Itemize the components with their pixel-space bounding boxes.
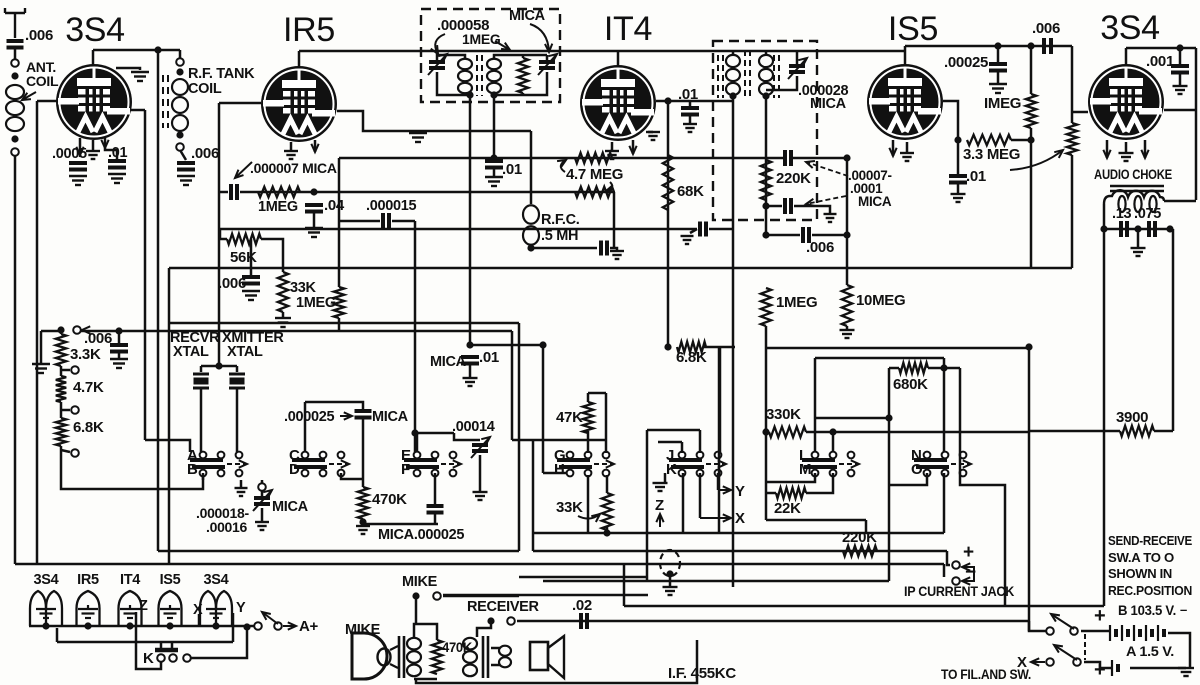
- wire x220 seg: [219, 230, 222, 239]
- switch C D: [292, 452, 327, 477]
- node sock3: [126, 622, 133, 629]
- vacuum tube V1 3S4: [56, 64, 132, 140]
- svg-text:.01: .01: [966, 168, 986, 185]
- wire y323 bus: [169, 322, 519, 325]
- arrow tube5 fil R: [1141, 150, 1148, 158]
- wire x766 lower: [765, 206, 768, 235]
- terminal div tap2: [71, 406, 79, 414]
- svg-text:1MEG: 1MEG: [776, 294, 817, 311]
- wire tube5 fil arrows R: [1144, 140, 1147, 158]
- battery B 103.5V: [1110, 625, 1164, 641]
- node phone jack tip: [666, 570, 673, 577]
- svg-text:MICA: MICA: [372, 409, 409, 425]
- vacuum tube V3 1T4: [580, 65, 656, 141]
- svg-text:470K: 470K: [372, 491, 407, 508]
- wire T1 left top: [436, 51, 439, 60]
- wire .00025 down: [997, 71, 1000, 84]
- wire JK jog: [658, 441, 682, 444]
- wire x1072 vertical: [1071, 46, 1074, 123]
- wire tube4 plate right: [943, 101, 958, 140]
- wire x624 seg: [623, 564, 626, 606]
- inductor T2 primary: [726, 55, 740, 95]
- svg-text:Z: Z: [139, 598, 148, 614]
- ground .00025: [989, 84, 1007, 93]
- wire K stub b: [171, 642, 174, 648]
- wire cap .0001 row: [766, 205, 782, 208]
- resistor 1MEG af: [1026, 94, 1036, 128]
- svg-text:M: M: [799, 461, 811, 478]
- wire tube2 fil arrow: [314, 140, 317, 152]
- wire tube1 filament left: [79, 138, 82, 157]
- arrow 33K: [578, 514, 600, 519]
- node .001 top: [1176, 44, 1183, 51]
- wire mike xfrm top: [414, 624, 437, 640]
- speaker symbol: [530, 642, 548, 670]
- svg-text:4.7 MEG: 4.7 MEG: [566, 166, 623, 183]
- node y432 x833: [829, 428, 836, 435]
- wire rfc cap gnd: [610, 248, 617, 251]
- svg-text:1MEG: 1MEG: [296, 295, 336, 311]
- transformer T1 dashed box: [421, 9, 560, 102]
- resistor 68K: [663, 155, 673, 210]
- switch C D arrow: [329, 463, 349, 465]
- wire tube2 plate gnd stub: [417, 131, 420, 134]
- wire X stub: [198, 614, 201, 626]
- inductor R.F. tank coil: [172, 79, 188, 131]
- wire tube2 grid left: [219, 102, 261, 105]
- svg-text:.00014: .00014: [452, 419, 495, 435]
- node T2 pri bottom: [729, 92, 736, 99]
- ground divider: [32, 364, 50, 373]
- svg-text:.00016: .00016: [206, 519, 248, 535]
- wire .00025 stem: [997, 46, 1000, 62]
- terminal trim curl: [258, 483, 266, 491]
- arrow mica 7: [235, 162, 252, 178]
- wire x1031 lower: [1030, 128, 1033, 268]
- wire tube1 center pin: [92, 140, 95, 150]
- wire batt B right: [1168, 633, 1190, 668]
- wire .01 y229 gnd: [690, 229, 697, 233]
- wire y192 bus: [240, 191, 614, 194]
- wire y606 bus: [624, 605, 1104, 608]
- wire 33K top: [606, 475, 609, 493]
- capacitor .02: [581, 613, 587, 629]
- node divider top: [57, 326, 64, 333]
- wire y551 box bottom: [158, 550, 519, 553]
- wire .000015 left: [338, 220, 380, 223]
- svg-text:.0005: .0005: [52, 146, 87, 162]
- svg-text:220K: 220K: [842, 529, 877, 546]
- capacitor .0005: [69, 163, 87, 170]
- wire 56K right: [261, 239, 283, 272]
- wire .01 tube3 stem: [689, 101, 692, 106]
- ground rfc cap: [610, 251, 624, 259]
- terminal RF tank top: [176, 58, 184, 66]
- resistor 3.3K: [56, 334, 66, 366]
- wire JK right down X: [699, 473, 702, 518]
- resistor 47K: [583, 402, 593, 433]
- resistor 6.8K: [56, 418, 66, 446]
- wire y268 bus: [169, 267, 1072, 270]
- capacitor .000015: [383, 213, 389, 229]
- capacitor .04: [305, 205, 323, 212]
- jack phone dashed oval: [660, 550, 680, 576]
- svg-text:33K: 33K: [556, 499, 583, 516]
- wire x958 down: [957, 140, 960, 174]
- svg-text:220K: 220K: [776, 170, 811, 187]
- wire batt B left: [1081, 630, 1110, 633]
- wire E top bus: [415, 432, 454, 435]
- svg-text:A 1.5 V.: A 1.5 V.: [1126, 644, 1174, 659]
- wire xtal left down: [200, 388, 203, 452]
- wire y158 bus: [339, 157, 786, 160]
- terminal sw A left: [1046, 658, 1054, 666]
- wire tube3 top lead: [617, 51, 620, 66]
- svg-text:.006: .006: [1032, 20, 1060, 37]
- svg-text:B 103.5 V.: B 103.5 V.: [1118, 603, 1176, 618]
- ground 470K: [356, 526, 370, 534]
- wire x1072 lower: [1071, 155, 1074, 268]
- wire y533 bus: [533, 532, 944, 535]
- arrow to X batt: [1031, 661, 1045, 663]
- wire F right down: [434, 473, 437, 504]
- wire 3900 right: [1154, 430, 1173, 433]
- svg-text:3S4: 3S4: [34, 572, 59, 588]
- svg-text:.04: .04: [324, 197, 345, 214]
- wire receiver stem: [477, 621, 491, 637]
- wire y345 seg: [470, 344, 543, 347]
- capacitor mica2: [427, 506, 444, 513]
- node RF tank bottom: [176, 131, 183, 138]
- svg-text:IT4: IT4: [120, 572, 140, 588]
- wire tube5 plate right: [1164, 109, 1196, 112]
- resistor 22K: [776, 488, 806, 498]
- wire tube4 fil arrow: [892, 140, 895, 156]
- terminal jack minus: [952, 577, 960, 585]
- arrow tube5 fil L: [1103, 150, 1110, 158]
- svg-text:XTAL: XTAL: [227, 344, 263, 360]
- switch J K open contacts: [715, 452, 722, 459]
- wire div gnd jog: [41, 330, 61, 333]
- node 3.3meg left: [954, 136, 961, 143]
- node antenna coil bottom: [11, 135, 18, 142]
- wire rf tank to cap .006: [180, 150, 186, 160]
- wire mike xfrm bottom: [414, 678, 437, 681]
- svg-text:IS5: IS5: [160, 572, 181, 588]
- capacitor .001: [1171, 66, 1189, 73]
- switch C D open contacts: [338, 452, 345, 459]
- wire tube1 filament right: [105, 138, 117, 159]
- ground .000018: [255, 522, 269, 530]
- resistor 1MEG grid: [258, 187, 300, 197]
- ground tube1 center: [86, 151, 100, 159]
- wire x169 seg: [168, 268, 171, 564]
- ground tube5 center: [1119, 153, 1134, 161]
- ground tube3 center: [605, 151, 619, 159]
- wire xfrm bottom return: [416, 640, 697, 683]
- wire JK right down Y: [717, 473, 720, 490]
- capacitor .006 rf tank: [177, 163, 195, 170]
- resistor 3.3MEG: [967, 135, 1011, 145]
- capacitor .000007: [231, 184, 237, 200]
- socket filament IT4: [119, 591, 142, 626]
- wire T2 trimmer bottom: [766, 76, 797, 90]
- wire .000018 gnd link: [240, 480, 243, 488]
- ground tube4 center: [900, 153, 914, 161]
- ground Z: [653, 483, 668, 491]
- ground .01 y229: [681, 236, 694, 244]
- wire mica2 down: [434, 513, 437, 524]
- wire y418 seg: [815, 417, 889, 420]
- svg-text:MICA.000025: MICA.000025: [378, 527, 464, 543]
- wire y520 bus: [766, 519, 866, 522]
- node T2 sec bottom: [762, 92, 769, 99]
- wire divider bottom: [61, 446, 203, 489]
- switch K bar: [155, 648, 178, 653]
- inductor mike primary: [407, 638, 421, 676]
- wire y432 bus: [806, 431, 1029, 434]
- resistor 33K gh: [602, 493, 612, 530]
- ground 10MEG: [840, 330, 855, 338]
- wire y330 bus: [78, 330, 512, 333]
- wire 330K left: [765, 428, 768, 436]
- svg-text:3900: 3900: [1116, 409, 1148, 426]
- wire L bottom: [766, 473, 815, 482]
- ground .001: [1173, 86, 1188, 94]
- wire x766 vertical: [765, 96, 768, 206]
- svg-text:REC.POSITION: REC.POSITION: [1108, 583, 1192, 598]
- svg-text:MICA: MICA: [430, 354, 467, 370]
- inductor T1 secondary: [487, 59, 501, 94]
- svg-text:Z: Z: [655, 497, 664, 514]
- wire y564 drop: [943, 564, 946, 577]
- wire fil bus 2 right stub: [232, 613, 235, 642]
- inductor T1 primary: [458, 59, 472, 94]
- node y345 left: [466, 341, 473, 348]
- ground caps mid: [1131, 248, 1146, 256]
- wire 47K top: [588, 392, 606, 395]
- svg-text:3S4: 3S4: [204, 572, 229, 588]
- svg-text:.00025: .00025: [944, 54, 988, 71]
- node xtal tee: [215, 362, 222, 369]
- terminal antenna coil bottom: [11, 148, 19, 156]
- trimmer capacitor T1 right: [539, 62, 555, 68]
- wire x960 vertical: [960, 368, 1005, 606]
- node y345 right: [539, 341, 546, 348]
- svg-text:F: F: [401, 461, 410, 478]
- wire antenna cap to coil: [14, 48, 17, 60]
- wire .04 down: [313, 212, 316, 228]
- node x766 y235: [762, 231, 769, 238]
- core T2 dashed right: [774, 55, 779, 98]
- wire .01 tube3 down: [689, 115, 692, 124]
- wire C stem: [304, 402, 307, 452]
- wire 680K left: [889, 367, 899, 370]
- wire JK left bottom: [664, 473, 667, 483]
- svg-text:COIL: COIL: [26, 73, 59, 89]
- wire out top: [491, 647, 500, 650]
- bracket ip jack: [962, 567, 974, 581]
- capacitor .006 af bars: [1044, 38, 1051, 54]
- wire x1104 vertical: [1103, 229, 1106, 606]
- wire .01 T1 down: [493, 168, 496, 177]
- capacitor .01 tube3: [681, 108, 699, 115]
- capacitor rfc bypass: [601, 241, 607, 256]
- wire B left down: [202, 473, 205, 480]
- wire grid cap left: [219, 191, 228, 194]
- wire x363 top: [305, 402, 363, 411]
- wire 10MEG gnd stem: [846, 326, 849, 330]
- inductor audio choke: [1104, 190, 1164, 204]
- wire x415 vertical: [414, 221, 417, 455]
- arrow 4.7meg b: [606, 182, 612, 191]
- node x494 y158: [490, 154, 497, 161]
- capacitor .006 56K: [242, 277, 260, 284]
- resistor volume pot: [1067, 123, 1077, 155]
- svg-text:.13: .13: [1112, 206, 1131, 222]
- transformer mike core: [399, 636, 404, 678]
- arrow to X: [700, 517, 731, 519]
- wire caps mid gnd: [1137, 229, 1140, 248]
- svg-text:1MEG: 1MEG: [258, 199, 298, 215]
- capacitor .00007: [785, 150, 791, 166]
- svg-text:SEND-RECEIVE: SEND-RECEIVE: [1108, 533, 1193, 548]
- wire T1 right trim stem: [546, 55, 549, 60]
- inductor speaker vc: [499, 646, 511, 668]
- ground tube2 center: [284, 151, 298, 159]
- svg-text:.075: .075: [1134, 206, 1161, 222]
- wire antenna top bus: [93, 49, 180, 52]
- switch A B arrow: [227, 463, 247, 465]
- terminal sw B left: [1046, 627, 1054, 635]
- svg-text:330K: 330K: [766, 406, 801, 423]
- svg-text:.5 MH: .5 MH: [541, 228, 578, 244]
- capacitor .006 div: [110, 345, 128, 352]
- switch L M arrow: [839, 463, 859, 465]
- wire div tap1: [61, 369, 70, 372]
- socket filament IS5: [159, 591, 182, 626]
- arrow tube4 fil: [889, 148, 896, 156]
- wire N right stem: [943, 358, 946, 452]
- vacuum tube V5 3S4: [1088, 64, 1164, 140]
- wire div tap2: [61, 409, 70, 412]
- node x847 y235: [843, 231, 850, 238]
- wire y564 bus: [15, 563, 944, 566]
- wire RF tank top lead: [179, 50, 182, 59]
- wire x847 vertical: [846, 158, 849, 285]
- svg-text:MICA: MICA: [858, 194, 892, 209]
- terminal A+ sw right: [274, 622, 282, 630]
- switch L M: [802, 452, 837, 477]
- core R.F. tank dashed: [163, 75, 168, 128]
- node mike tip: [412, 592, 419, 599]
- node caps row right: [1166, 225, 1173, 232]
- wire 6.8K right: [704, 346, 735, 349]
- wire fil bus 2: [57, 641, 233, 644]
- wire div tap3: [61, 450, 70, 452]
- wire jack gnd stem: [669, 572, 672, 587]
- svg-text:COIL: COIL: [188, 81, 222, 97]
- wire x145 jog: [145, 440, 190, 452]
- ground .0001: [824, 214, 837, 222]
- wire tube3 center pin: [611, 142, 614, 150]
- node 680K right: [940, 364, 947, 371]
- wire 22K left: [766, 492, 776, 495]
- svg-text:K: K: [143, 650, 154, 667]
- ground .000018 aux: [235, 488, 248, 496]
- wire K stub a: [160, 642, 163, 648]
- wire tube1 plate to top bus: [92, 50, 95, 66]
- resistor 4.7MEG a: [575, 153, 612, 163]
- wire x494 to .01: [493, 95, 496, 163]
- svg-text:.006: .006: [806, 239, 834, 256]
- resistor 680K: [899, 363, 928, 373]
- wire vertical x158 long: [157, 50, 160, 551]
- wire JK top bus: [647, 429, 700, 432]
- wire div gnd stem: [40, 331, 43, 364]
- resistor 470K mike: [432, 640, 442, 674]
- capacitor .01 tube4: [949, 176, 967, 183]
- node x668 y101: [664, 97, 671, 104]
- wire .00014 link: [454, 433, 480, 440]
- wire T1 right top: [494, 55, 547, 58]
- wire x668 vertical: [667, 101, 670, 347]
- wire .006 div down: [118, 352, 121, 359]
- svg-text:R.F. TANK: R.F. TANK: [188, 66, 255, 82]
- svg-text:22K: 22K: [774, 500, 801, 517]
- wire x606 down: [605, 393, 608, 453]
- svg-text:MIKE: MIKE: [402, 574, 438, 590]
- wire xtal right down: [236, 388, 239, 452]
- wire x1173 vertical: [1172, 229, 1175, 431]
- wire x947 jack: [947, 551, 950, 565]
- socket filament 3S4: [200, 591, 232, 626]
- switch blade B: [1051, 614, 1074, 629]
- wire divider top: [60, 330, 63, 334]
- node junction top bus: [154, 46, 161, 53]
- wire T1 sec bottom bus: [494, 72, 547, 95]
- wire H right down: [587, 475, 590, 533]
- switch A B open contacts: [236, 452, 243, 459]
- wire x1031 vertical: [1030, 46, 1033, 94]
- ground .01 tube4: [951, 194, 966, 202]
- crystal RECVR: [193, 374, 209, 388]
- ground .01 T1: [485, 177, 503, 186]
- wire x219 vertical: [218, 103, 221, 366]
- svg-text:33K: 33K: [290, 280, 317, 296]
- battery A 1.5V: [1112, 660, 1118, 676]
- wire y229 bus: [219, 228, 697, 231]
- switch A B: [190, 452, 225, 477]
- node sock2: [84, 622, 91, 629]
- svg-text:B: B: [187, 461, 198, 478]
- svg-text:Y: Y: [735, 483, 745, 500]
- wire tube5 center pin: [1125, 142, 1128, 152]
- node x766 y206: [762, 202, 769, 209]
- wire 3.3meg to junction: [1011, 139, 1031, 142]
- resistor 56K: [227, 234, 261, 244]
- svg-text:6.8K: 6.8K: [73, 419, 104, 436]
- node 33K bottom: [603, 529, 610, 536]
- capacitor MICA .01 mid: [461, 357, 479, 364]
- node rfc bottom: [527, 244, 534, 251]
- resistor 4.7MEG b: [575, 187, 614, 197]
- trimmer capacitor T2: [789, 66, 805, 72]
- svg-text:IP CURRENT JACK: IP CURRENT JACK: [904, 583, 1014, 599]
- switch E F arrow: [441, 463, 461, 465]
- node sock1: [42, 622, 49, 629]
- wire tube3 fil arrow: [632, 140, 635, 154]
